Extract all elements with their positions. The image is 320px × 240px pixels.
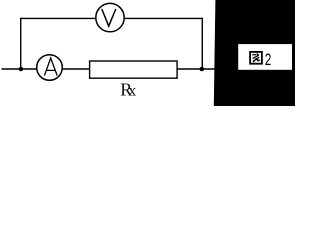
voltmeter V1 bbox=[96, 3, 124, 31]
wire bottom horizontal bbox=[2, 68, 215, 70]
resistor Rx bbox=[90, 61, 178, 78]
scan artifact black region bbox=[214, 0, 295, 106]
wire left vertical bbox=[20, 18, 22, 69]
node junction left bbox=[19, 67, 24, 72]
wire right vertical bbox=[201, 18, 203, 69]
ammeter A1 bbox=[37, 55, 63, 81]
svg-text:2: 2 bbox=[265, 51, 271, 70]
svg-text:x: x bbox=[128, 83, 136, 100]
CJK glyph tu (figure) bbox=[250, 52, 262, 64]
wire top horizontal bbox=[21, 17, 203, 19]
label box figure 2 bbox=[238, 44, 292, 70]
node junction right bbox=[200, 67, 205, 72]
